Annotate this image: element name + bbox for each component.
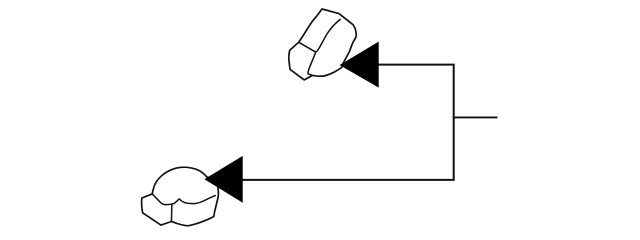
part blob top facet vertical edge <box>308 52 316 75</box>
arrow callout top <box>341 43 379 87</box>
part blob top inner curve <box>316 19 341 52</box>
wire mid tick on vertical bracket <box>453 116 498 118</box>
part blob bottom vertical facet edge <box>170 204 173 222</box>
part blob bottom (outline) <box>142 167 219 226</box>
part blob bottom wavy band line <box>152 194 216 205</box>
arrow callout bottom <box>205 157 242 202</box>
wire leader from top arrow to vertical bracket and down to bottom arrow <box>242 65 453 180</box>
part blob top facet edge <box>299 42 316 52</box>
part blob top (outline) <box>289 9 357 80</box>
